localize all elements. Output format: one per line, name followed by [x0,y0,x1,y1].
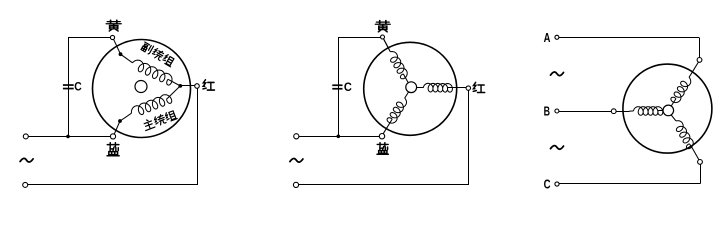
motor M1 (single-phase capacitor motor) stator circle [93,40,191,138]
motor terminal U (open circle, top right) [697,58,702,63]
capacitor C plates (M2) [332,84,342,86]
wire: M2 source L1 horizontal [299,136,379,138]
terminal 黄 (open circle) [110,35,114,39]
wire: M2 right coil to terminal 红 [448,87,467,89]
coil: M3 winding W (bottom-right) [676,121,693,149]
label 蓝 M2 [377,143,388,155]
motor M2 (single-phase, Y windings) stator circle [364,42,457,135]
svg-text:C: C [344,80,352,94]
AC symbol ~ between B and C [551,146,564,150]
wire: terminal U radial lead [691,62,698,74]
label 黄 M2 [375,21,390,32]
wire: terminal 蓝 radial lead [114,121,120,134]
wire: aux coil to common node lead [168,79,180,86]
wire: phase B horizontal [559,111,611,113]
label 副绕组 (auxiliary winding) [140,41,153,54]
label 黄 (yellow) [106,20,121,31]
source terminal L2 M2 [293,182,298,187]
coil: auxiliary winding 副绕组 [133,60,173,85]
wire: phase C horizontal [559,183,700,185]
label 红 M2 [473,82,484,92]
junction: capacitor branch tap [66,135,70,139]
wire: winding V to star point [658,110,663,112]
wire: terminal 黄 radial lead into stator [114,39,121,54]
label 主绕组 (main winding) [142,118,155,131]
motor M1 rotor circle [135,81,147,93]
AC symbol ~ between A and B [551,72,564,76]
wire: M2 top horizontal to terminal 黄 [338,37,380,39]
terminal 蓝 (open circle) [110,134,115,139]
source terminal L1 (open circle) [23,134,28,139]
wire: star point to right coil [417,87,424,89]
wire: capacitor branch vertical [68,38,70,137]
wire: phase A vertical drop [699,37,701,57]
capacitor C plates [63,84,74,86]
coil: M2 top winding [390,52,407,79]
svg-text:A: A [544,30,551,45]
wire: terminal V lead [616,111,629,113]
phase terminal A (open circle) [555,35,559,39]
motor terminal V (open circle, left) [611,109,616,114]
source terminal L2 (open circle) [23,182,28,187]
source terminal L1 M2 [294,134,299,139]
wire: phase C vertical rise [700,164,702,183]
node: common junction to 红 [178,84,182,88]
motor M3 (three-phase, star) stator circle [623,64,712,153]
AC symbol ~ M2 [290,158,303,162]
coil: M2 right winding [423,83,452,92]
label 红 (red) [203,80,214,90]
wire: main coil to common node [167,86,181,99]
wire: winding W to star point [671,115,676,121]
wire: M2 bottom horizontal [299,184,469,186]
svg-text:C: C [544,176,551,191]
wire: common node to terminal 红 [182,85,195,87]
wire: M2 lower-left coil to terminal 蓝 [383,119,392,134]
terminal 黄 M2 (open circle) [381,35,385,39]
junction: M2 capacitor tap [337,135,341,139]
wire: right vertical to terminal 红 [197,88,199,185]
wire: source L1 to terminal 蓝 (horizontal) [28,136,110,138]
wire: 黄 M2 radial lead [384,39,389,49]
wire: M2 top coil to star point [403,74,408,83]
wire: winding U to star point [671,99,676,106]
motor M2 star point circle [406,82,417,93]
wire: aux junction to coil lead [121,54,133,63]
wire: star point to lower-left coil [405,92,409,98]
phase terminal C (open circle) [555,182,559,186]
node: main winding start junction [118,119,122,123]
terminal 蓝 M2 (open circle) [379,134,384,139]
wire: M2 capacitor branch vertical [338,37,340,136]
svg-text:B: B [544,104,550,119]
wire: phase A horizontal [559,37,699,39]
label 蓝 (blue) [107,143,119,156]
phase terminal B (open circle) [555,109,559,113]
wire: main junction to coil lead [120,113,132,121]
wire: terminal W radial lead [692,147,699,160]
wire: source L2 bottom horizontal [28,184,198,186]
coil: main winding 主绕组 [131,95,171,115]
motor M3 star point circle [663,105,674,116]
wire: M2 right vertical to terminal 红 [468,90,470,185]
coil: M2 lower-left winding [387,98,406,123]
coil: M3 winding U (top-right) [671,77,691,102]
terminal 红 M2 (open circle) [466,86,470,90]
svg-text:C: C [74,80,82,94]
node: aux winding start junction [119,52,123,56]
motor terminal W (open circle, bottom right) [698,160,703,165]
wire: capacitor to terminal 黄 [68,37,110,39]
AC source symbol ~ [20,158,33,162]
terminal 红 (open circle) [195,84,200,89]
coil: M3 winding V (left, horizontal) [633,107,662,116]
